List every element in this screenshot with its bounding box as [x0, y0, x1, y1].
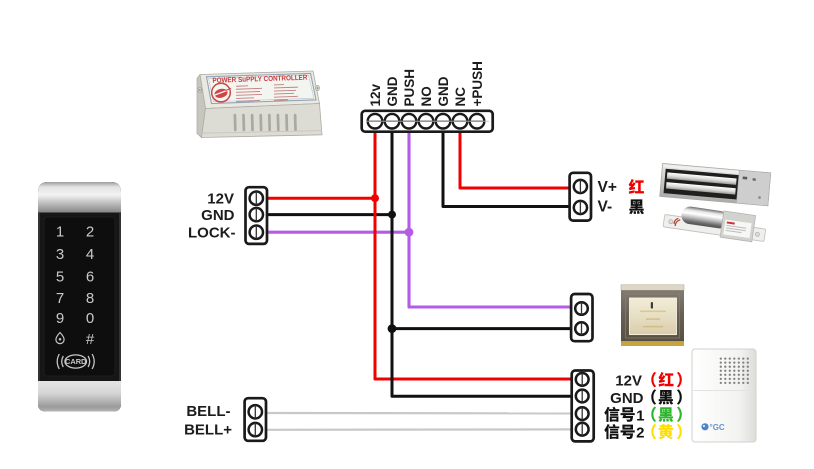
bell terminal block: [245, 398, 266, 441]
labels 12V GND with CJK colour notes: [610, 372, 644, 406]
svg-text:12v: 12v: [368, 83, 383, 106]
label signal1 CJK: [604, 407, 644, 425]
svg-text:CARD: CARD: [65, 357, 87, 366]
labels V+ V-: [598, 179, 617, 215]
rotated pin labels: 12v GND PUSH NO GND NC +PUSH: [368, 61, 485, 106]
wire: black GND from reader block to GND bus: [266, 213, 392, 216]
label (yellow) CJK: [651, 424, 682, 439]
door bell terminal block: [572, 371, 594, 442]
svg-text:NC: NC: [453, 87, 468, 107]
svg-text:12V: 12V: [207, 191, 234, 208]
svg-text:BELL+: BELL+: [184, 421, 232, 438]
magnetic lock: [660, 163, 771, 205]
faint screw rail line: [366, 120, 489, 122]
svg-text:6: 6: [86, 268, 94, 285]
svg-text:BELL-: BELL-: [186, 403, 230, 420]
junction: red dot 12V bus: [371, 194, 379, 202]
svg-text:5: 5: [56, 268, 64, 285]
lock terminal block: [570, 173, 591, 221]
reader terminal block: [246, 187, 268, 244]
wire: black from second GND terminal to lock V-: [443, 130, 570, 207]
label signal2 CJK: [604, 424, 644, 442]
label red-CJK for V+: [629, 179, 644, 194]
svg-text:LOCK-: LOCK-: [188, 225, 236, 242]
wire: gray BELL+ to bell signal2: [266, 428, 572, 431]
label (black-green) CJK: [651, 407, 682, 422]
svg-text:9: 9: [56, 310, 64, 327]
electric bolt lock: [663, 203, 768, 244]
svg-text:PUSH: PUSH: [402, 69, 417, 107]
wire: red 12V from reader block to 12v bus: [266, 197, 375, 200]
svg-text:GND: GND: [201, 207, 235, 224]
svg-text:7: 7: [56, 290, 64, 307]
labels BELL- BELL+: [184, 403, 232, 438]
svg-text:2: 2: [86, 223, 94, 240]
controller terminal strip J1: [362, 111, 493, 132]
svg-text:GND: GND: [436, 76, 451, 106]
junction: black dot GND bus: [388, 211, 396, 219]
wire: red from NC terminal to lock V+: [460, 130, 570, 188]
svg-text:2: 2: [636, 425, 644, 442]
label black-CJK for V-: [629, 199, 644, 214]
wire: purple LOCK- from reader block to PUSH bus: [266, 231, 409, 234]
wire: black vertical from GND terminal down to bell GND: [392, 130, 572, 396]
label (black) CJK: [651, 389, 682, 404]
exit button terminal block: [571, 294, 592, 341]
svg-text:NO: NO: [419, 86, 434, 106]
svg-text:GND: GND: [385, 76, 400, 106]
svg-text:+PUSH: +PUSH: [470, 61, 485, 106]
wire: black branch to exit button lower terminal: [392, 327, 571, 330]
svg-text:1: 1: [636, 407, 644, 424]
svg-text:0: 0: [86, 310, 94, 327]
svg-text:V+: V+: [598, 179, 617, 196]
wire: purple vertical from PUSH terminal to exit button upper terminal: [409, 130, 571, 307]
labels 12V GND LOCK-: [188, 191, 236, 242]
label (red) CJK: [651, 372, 682, 387]
access keypad reader: [38, 182, 121, 412]
svg-text:°GC: °GC: [710, 423, 725, 432]
power supply controller box: [197, 71, 322, 138]
junction: purple dot PUSH bus: [405, 228, 414, 237]
svg-text:V-: V-: [598, 199, 613, 216]
svg-text:12V: 12V: [615, 372, 642, 389]
exit button: [621, 285, 684, 346]
svg-text:GND: GND: [610, 390, 644, 407]
wire: red vertical from 12v terminal down to bell 12V: [375, 130, 572, 379]
svg-text:#: #: [86, 331, 95, 348]
wire: gray BELL- to bell signal1: [266, 412, 572, 415]
svg-text:4: 4: [86, 246, 94, 263]
door bell: [692, 349, 756, 442]
svg-text:1: 1: [56, 223, 64, 240]
junction: black dot exit-button branch: [388, 324, 397, 333]
svg-text:3: 3: [56, 246, 64, 263]
svg-text:8: 8: [86, 290, 94, 307]
